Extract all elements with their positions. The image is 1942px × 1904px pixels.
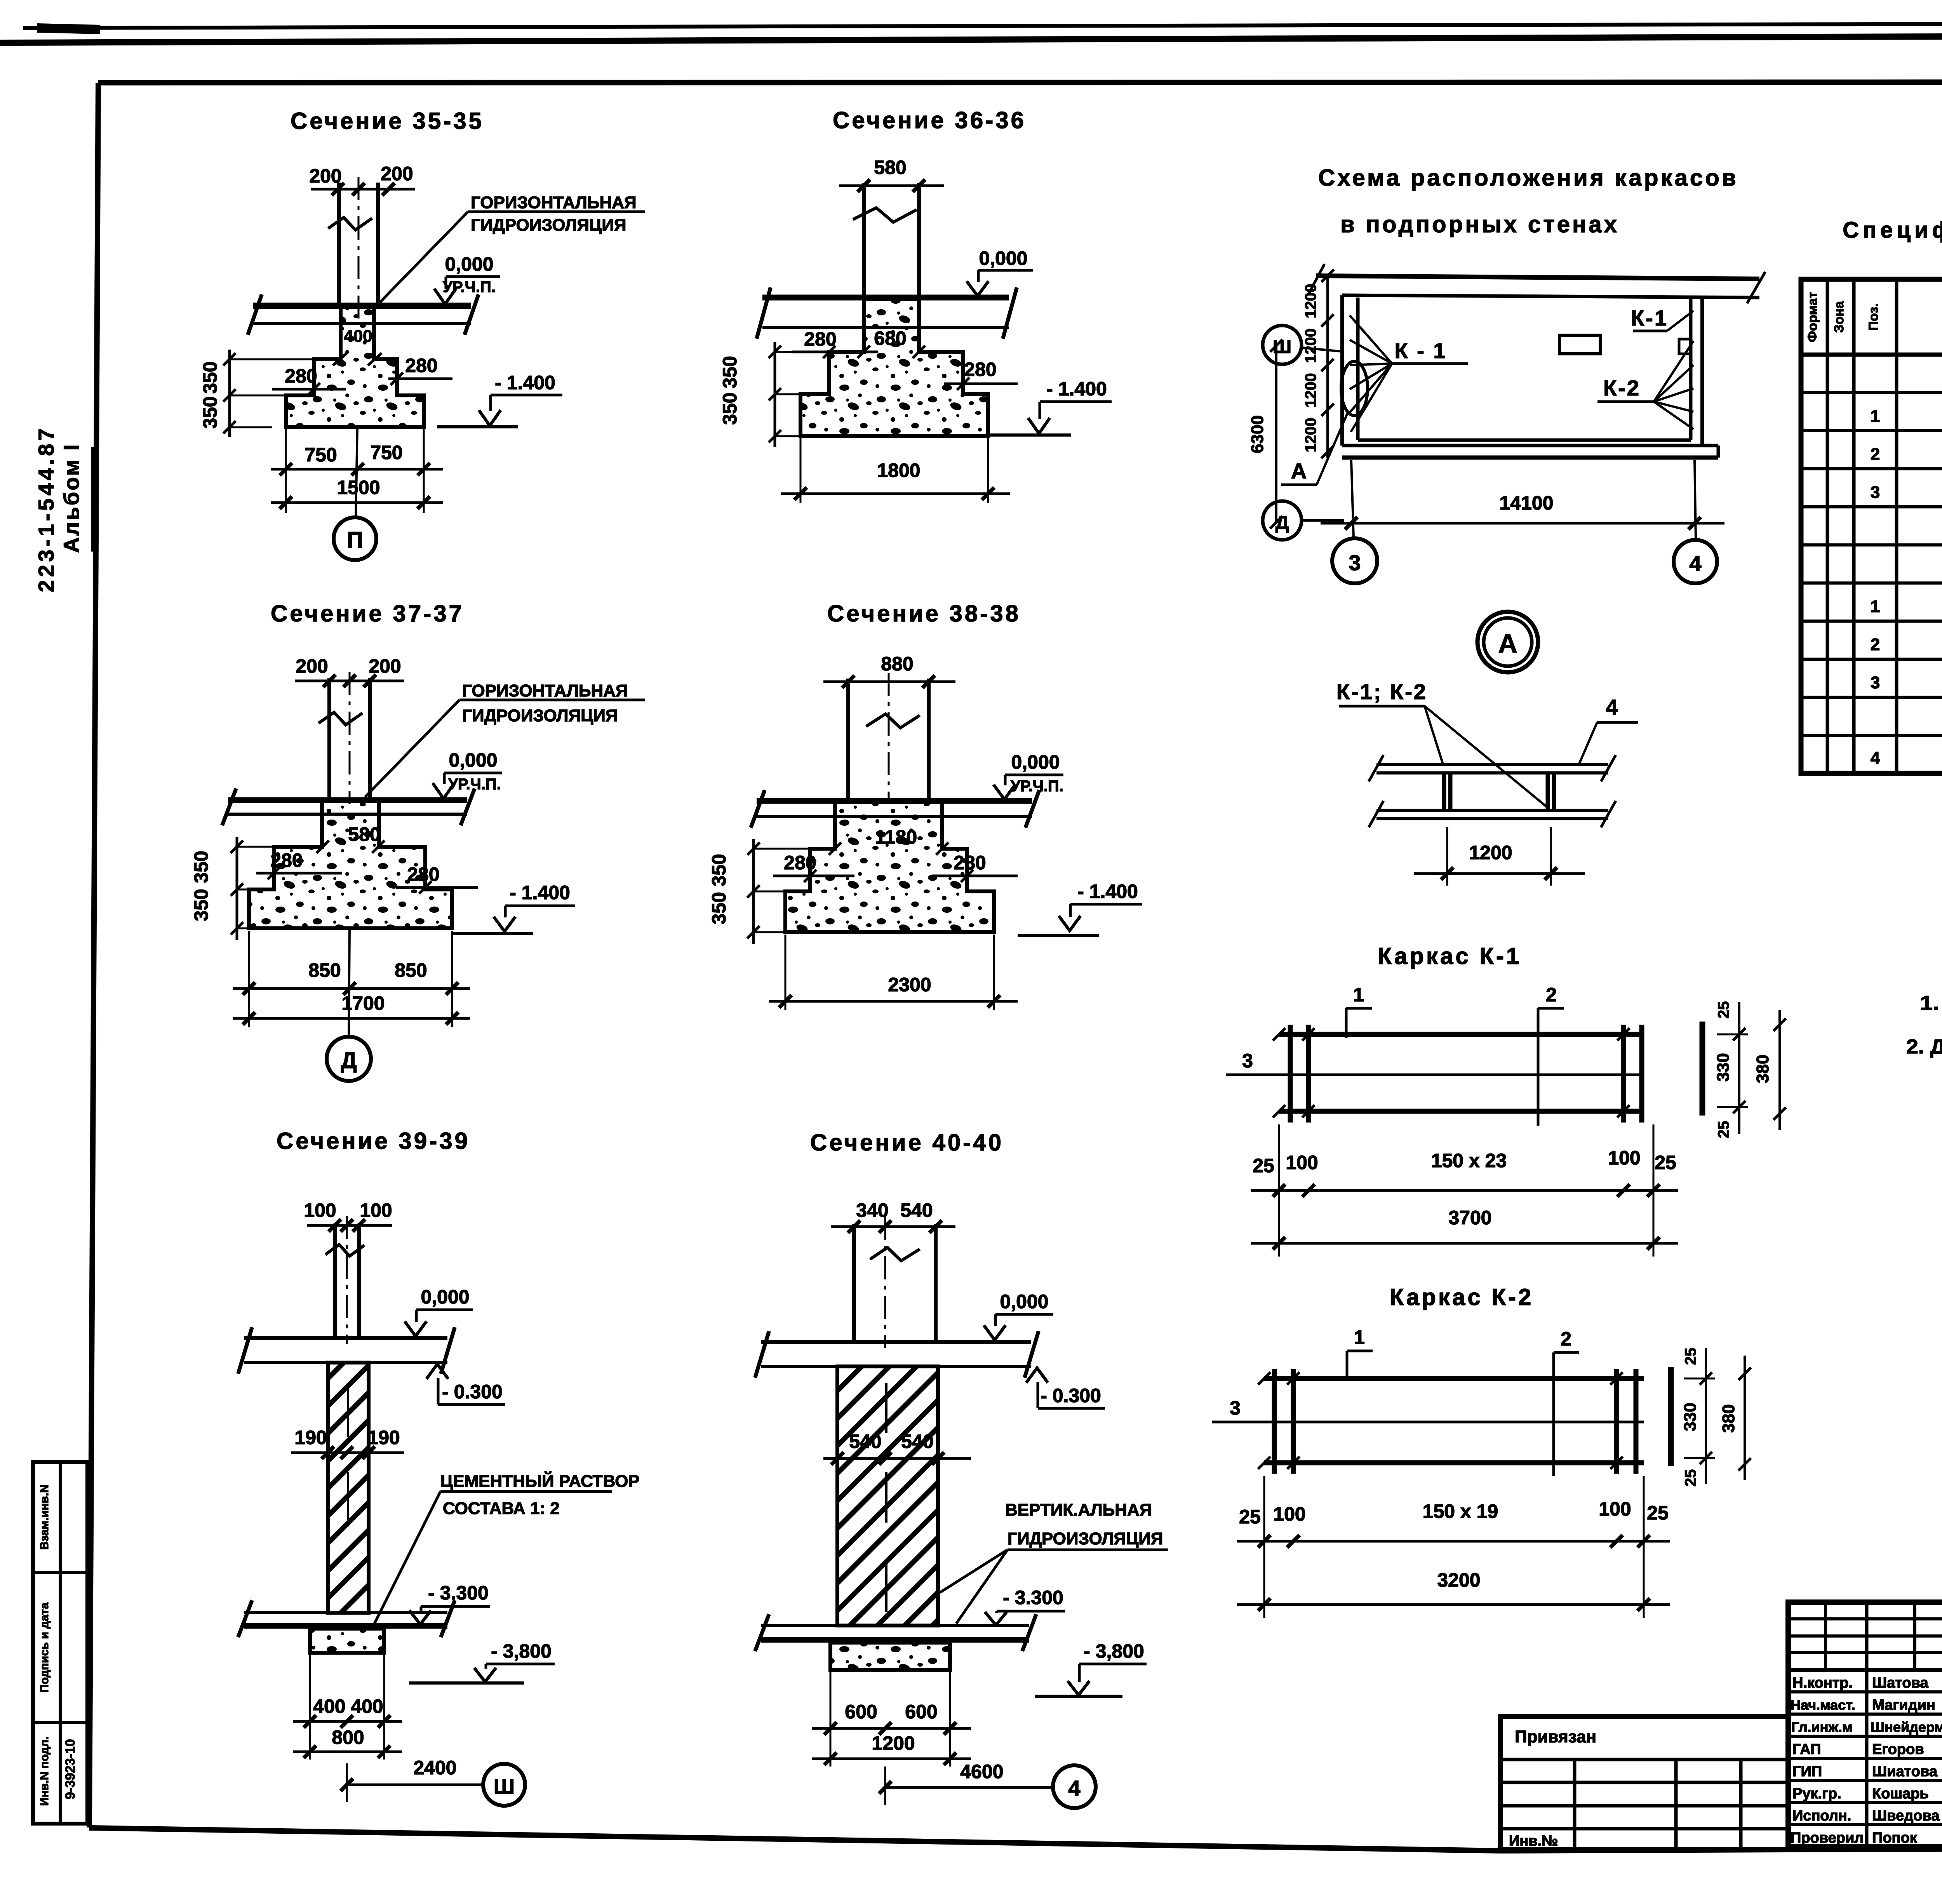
- node A detail label 4 underline: [1597, 721, 1638, 724]
- schema dim line 14100: [1321, 522, 1724, 525]
- svg-text:Спецификация арматуры на плоск: Спецификация арматуры на плоские каркасы: [1843, 218, 1942, 243]
- svg-text:750: 750: [305, 444, 337, 466]
- sheet frame top: [98, 82, 1942, 83]
- section 39-39 wall break mark: [325, 1244, 364, 1256]
- section 40-40 basement column hatched: [837, 1366, 938, 1626]
- privyazan grid h4: [1500, 1827, 1788, 1831]
- section 38-38 dim line 2300: [769, 1000, 1018, 1003]
- section 40-40 wall axis: [884, 1217, 886, 1348]
- section 37-37 axis circle D: [327, 1037, 371, 1081]
- svg-text:- 0.300: - 0.300: [1041, 1385, 1101, 1406]
- svg-text:Н.контр.: Н.контр.: [1792, 1675, 1853, 1691]
- svg-text:580: 580: [874, 157, 906, 178]
- section 40-40 dim line 600: [812, 1727, 971, 1730]
- svg-text:2. Данный лист читать совместн: 2. Данный лист читать совместно с листам…: [1906, 1036, 1942, 1058]
- left stamp divider vertical: [59, 1462, 62, 1824]
- svg-text:- 3,800: - 3,800: [1084, 1640, 1144, 1662]
- section 38-38 wall break mark: [866, 714, 920, 728]
- section 38-38 slab top waterproofing: [757, 798, 1032, 804]
- svg-text:А: А: [1498, 629, 1517, 658]
- K-1 bottom bar: [1279, 1109, 1643, 1114]
- svg-text:880: 880: [881, 653, 913, 675]
- section 37-37 wall lines: [327, 678, 331, 800]
- svg-text:0,000: 0,000: [979, 247, 1027, 269]
- K-2 left end rods: [1272, 1369, 1277, 1474]
- node A detail leaders: [1425, 706, 1443, 765]
- svg-text:Ш: Ш: [494, 1775, 515, 1798]
- section 38-38 wall axis: [888, 673, 890, 804]
- svg-text:3: 3: [1871, 483, 1880, 502]
- schema detail A oval: [1341, 361, 1368, 416]
- section 40-40 pad dim extensions: [830, 1672, 832, 1767]
- svg-text:1: 1: [1354, 1326, 1365, 1348]
- section 40-40 waterproofing underline: [1008, 1549, 1168, 1551]
- svg-text:К - 1: К - 1: [1394, 338, 1447, 363]
- svg-text:2: 2: [1871, 445, 1880, 464]
- section 39-39 dim line 800: [293, 1751, 402, 1753]
- svg-text:4: 4: [1871, 748, 1880, 768]
- svg-text:Рук.гр.: Рук.гр.: [1792, 1786, 1841, 1802]
- section 37-37 slab bottom line: [228, 813, 467, 816]
- section 37-37 ground line: [452, 932, 533, 935]
- section 40-40 wall lines above slab: [852, 1224, 856, 1342]
- svg-text:- 3.300: - 3.300: [1003, 1587, 1063, 1608]
- svg-text:П: П: [347, 527, 363, 553]
- title block outer: [1788, 1602, 1942, 1847]
- svg-text:Сечение 35-35: Сечение 35-35: [291, 108, 484, 134]
- svg-text:330: 330: [1714, 1053, 1733, 1081]
- left margin album underline: [91, 447, 94, 552]
- schema wall left inner: [1356, 298, 1360, 440]
- spec table row lines: [1801, 391, 1942, 394]
- svg-text:540: 540: [901, 1431, 933, 1452]
- svg-text:Взам.инв.N: Взам.инв.N: [38, 1485, 51, 1550]
- schema axis circle Sh: [1263, 325, 1302, 364]
- cage K-2 drawing group: [1212, 1284, 1751, 1618]
- section 39-39 axis circle Sh: [483, 1764, 525, 1806]
- section 36-36 bottom dim extensions: [800, 438, 802, 503]
- svg-text:Поз.: Поз.: [1866, 303, 1881, 331]
- schema K-1 top right leader: [1667, 311, 1693, 331]
- svg-text:350: 350: [719, 356, 741, 388]
- section 35-35 group: [199, 108, 645, 560]
- K-1 right end rods: [1621, 1025, 1626, 1123]
- section 37-37 slab break left: [222, 788, 236, 825]
- section 35-35 footing outline with concrete fill: [286, 307, 424, 427]
- section 39-39 top dim line: [307, 1224, 392, 1227]
- section 36-36 wall lines: [862, 183, 866, 298]
- spec table header bottom line: [1801, 353, 1942, 357]
- schema top beam upper line: [1316, 276, 1759, 279]
- schema K-1 top right underline: [1633, 330, 1667, 332]
- sheet frame bottom: [89, 1828, 1942, 1851]
- svg-text:- 1.400: - 1.400: [1046, 378, 1107, 400]
- svg-text:380: 380: [1719, 1404, 1738, 1432]
- svg-text:200: 200: [381, 163, 413, 184]
- section 40-40 lower slab thick line: [761, 1637, 1029, 1643]
- schema left dim line outer 6300: [1275, 346, 1277, 522]
- svg-text:1200: 1200: [1469, 842, 1512, 863]
- svg-text:Формат: Формат: [1805, 292, 1820, 342]
- svg-text:3700: 3700: [1448, 1207, 1491, 1229]
- spec table column lines: [1826, 279, 1829, 773]
- svg-text:340: 340: [856, 1199, 888, 1221]
- node A detail dim line 1200: [1414, 872, 1585, 875]
- left stamp divider 1: [33, 1571, 87, 1574]
- svg-text:400: 400: [351, 1695, 383, 1717]
- svg-text:3200: 3200: [1437, 1569, 1480, 1591]
- page top edge line: [23, 23, 1942, 28]
- section 39-39 lower slab break right: [441, 1600, 455, 1637]
- svg-text:280: 280: [407, 863, 439, 885]
- svg-text:Шведова: Шведова: [1872, 1808, 1940, 1824]
- section 35-35 bottom dim extension right: [423, 429, 425, 513]
- svg-text:Шатова: Шатова: [1872, 1675, 1929, 1691]
- section 35-35 level mark arrow: [445, 277, 447, 289]
- schema wall opening rectangle: [1559, 335, 1600, 354]
- section 39-39 pad dim extensions: [309, 1655, 311, 1760]
- section 36-36 slab break left: [757, 287, 771, 339]
- svg-text:4: 4: [1689, 551, 1701, 576]
- svg-text:350: 350: [199, 396, 221, 428]
- svg-text:150 x 23: 150 x 23: [1431, 1150, 1507, 1171]
- section 40-40 lower slab break right: [1022, 1614, 1036, 1651]
- section 37-37 top dim line: [295, 680, 404, 682]
- section 35-35 wall break mark: [328, 218, 372, 230]
- svg-text:1200: 1200: [1302, 373, 1319, 408]
- K-2 bottom dim line 1: [1237, 1540, 1670, 1543]
- section 39-39 slab break right: [441, 1327, 455, 1374]
- K-1 top bar: [1279, 1032, 1643, 1037]
- cage layout schema group: [1248, 165, 1765, 672]
- spec table outer box: [1801, 279, 1942, 773]
- svg-text:350: 350: [190, 851, 212, 883]
- K-1 end view dim line 380: [1778, 1010, 1781, 1130]
- section 37-37 footing outline with concrete fill: [249, 801, 452, 928]
- section 40-40 waterproofing leaders: [940, 1550, 1008, 1592]
- svg-text:200: 200: [309, 165, 341, 187]
- schema bottom wall lower line: [1342, 456, 1718, 460]
- svg-text:0,000: 0,000: [1000, 1291, 1048, 1312]
- svg-text:280: 280: [784, 852, 816, 874]
- svg-text:ГАП: ГАП: [1792, 1741, 1821, 1758]
- section 39-39 upper slab bottom line: [244, 1361, 447, 1364]
- schema axis circle 3: [1332, 538, 1377, 583]
- svg-text:Альбом I: Альбом I: [59, 443, 84, 553]
- svg-text:100: 100: [304, 1199, 336, 1221]
- section 36-36 footing outline with concrete fill: [800, 299, 988, 436]
- schema K-2 fan leaders: [1654, 341, 1693, 402]
- privyazan grid v1: [1573, 1760, 1577, 1850]
- section 36-36 slab top waterproofing: [762, 295, 1009, 301]
- section 40-40 footing pad with concrete fill: [830, 1643, 950, 1670]
- svg-text:6300: 6300: [1248, 415, 1267, 453]
- svg-text:- 3,800: - 3,800: [491, 1640, 552, 1662]
- title block group: [1500, 1602, 1942, 1899]
- svg-text:Инв.N подл.: Инв.N подл.: [38, 1737, 51, 1806]
- section 37-37 bottom dim extensions: [248, 931, 250, 1027]
- svg-text:1. Общие примечания даны на ли: 1. Общие примечания даны на листе 5: [1920, 992, 1942, 1015]
- svg-text:350: 350: [708, 854, 730, 886]
- left stamp divider 2: [33, 1721, 87, 1724]
- section 39-39 footing pad with concrete fill: [310, 1629, 384, 1653]
- svg-text:К-1: К-1: [1631, 306, 1668, 330]
- section 39-39 dim line 190: [291, 1451, 404, 1454]
- svg-text:150 x 19: 150 x 19: [1423, 1500, 1498, 1522]
- schema K-2 label underline: [1597, 400, 1654, 403]
- section 35-35 leader waterproofing: [374, 212, 468, 309]
- svg-text:850: 850: [395, 959, 427, 981]
- K-2 middle rod 3: [1212, 1421, 1644, 1424]
- section 38-38 slab bottom line: [757, 815, 1032, 818]
- svg-text:2300: 2300: [888, 974, 931, 996]
- svg-text:Шнейдерман: Шнейдерман: [1871, 1719, 1942, 1735]
- svg-text:100: 100: [1608, 1147, 1640, 1169]
- svg-text:Сечение 37-37: Сечение 37-37: [271, 600, 464, 627]
- node A marker double circle: [1477, 612, 1538, 672]
- svg-text:750: 750: [370, 442, 402, 463]
- svg-text:Зона: Зона: [1832, 301, 1846, 333]
- svg-text:ЦЕМЕНТНЫЙ РАСТВОР: ЦЕМЕНТНЫЙ РАСТВОР: [440, 1471, 640, 1491]
- section 39-39 dim line 2400 to axis circle: [347, 1784, 483, 1786]
- svg-text:- 1.400: - 1.400: [495, 372, 555, 393]
- K-2 top bar: [1264, 1376, 1644, 1381]
- svg-text:100: 100: [1273, 1503, 1305, 1525]
- section 37-37 level mark arrow: [443, 773, 446, 784]
- svg-text:- 3.300: - 3.300: [428, 1582, 489, 1604]
- section 38-38 ground line: [1018, 934, 1099, 937]
- K-1 left dim ticks: [1273, 1028, 1285, 1041]
- section 37-37 wall axis: [349, 672, 351, 804]
- section 37-37 group: [190, 600, 645, 1081]
- schema bottom wall inner line: [1358, 439, 1691, 442]
- section 37-37 wall break mark: [318, 712, 362, 725]
- svg-text:Подпись и дата: Подпись и дата: [38, 1602, 51, 1693]
- svg-text:2400: 2400: [413, 1757, 456, 1779]
- svg-text:9-3923-10: 9-3923-10: [63, 1739, 78, 1799]
- svg-text:- 0.300: - 0.300: [442, 1381, 503, 1403]
- svg-text:1200: 1200: [1302, 284, 1319, 318]
- section 40-40 lower slab break left: [755, 1614, 769, 1651]
- K-1 dim line 3700: [1251, 1242, 1678, 1245]
- svg-text:4600: 4600: [960, 1761, 1003, 1782]
- privyazan grid h3: [1500, 1804, 1788, 1808]
- svg-text:2: 2: [1871, 635, 1880, 654]
- svg-text:1: 1: [1871, 407, 1880, 426]
- page top edge line 2: [0, 34, 1942, 43]
- schema node A underline: [1281, 484, 1317, 486]
- left stamp box: [33, 1462, 87, 1824]
- schema K-1 label underline: [1392, 362, 1468, 365]
- svg-text:25: 25: [1253, 1155, 1274, 1177]
- svg-text:330: 330: [1681, 1403, 1700, 1431]
- svg-text:800: 800: [332, 1726, 364, 1748]
- svg-text:Каркас К-1: Каркас К-1: [1378, 943, 1522, 969]
- section 38-38 level mark arrow: [1004, 775, 1007, 785]
- title block revision rows: [1788, 1617, 1942, 1620]
- svg-text:УР.Ч.П.: УР.Ч.П.: [443, 278, 496, 296]
- svg-text:100: 100: [1286, 1152, 1318, 1173]
- svg-text:Егоров: Егоров: [1872, 1741, 1924, 1758]
- svg-text:350: 350: [719, 392, 741, 425]
- K-2 end view dim line 330: [1705, 1348, 1707, 1484]
- cage K-1 drawing group: [1226, 943, 1786, 1257]
- section 40-40 lower slab thin line: [761, 1624, 1029, 1627]
- svg-text:- 1.400: - 1.400: [1077, 881, 1138, 902]
- svg-text:100: 100: [360, 1199, 392, 1221]
- K-2 end view dim line 380: [1744, 1356, 1746, 1480]
- section 36-36 group: [719, 107, 1112, 503]
- privyazan box: [1500, 1716, 1788, 1850]
- section 40-40 column center joint: [885, 1383, 887, 1433]
- schema right wall notch: [1679, 339, 1691, 354]
- node A detail label 4 leader: [1579, 722, 1597, 764]
- svg-text:280: 280: [804, 328, 836, 350]
- page top edge thick dash: [37, 28, 100, 30]
- svg-text:580: 580: [348, 823, 380, 845]
- section 35-35 ground line: [437, 425, 518, 428]
- section 37-37 leader waterproofing: [365, 700, 459, 797]
- svg-text:3: 3: [1349, 550, 1361, 575]
- privyazan grid h2: [1500, 1781, 1788, 1784]
- section 39-39 group: [238, 1128, 640, 1806]
- svg-text:Сечение 38-38: Сечение 38-38: [827, 600, 1021, 627]
- title block name rows: [1788, 1690, 1942, 1693]
- svg-text:2: 2: [1546, 984, 1557, 1006]
- schema wall right inner: [1689, 298, 1693, 440]
- K-1 middle rod 3: [1226, 1074, 1643, 1076]
- section 40-40 upper slab top line: [761, 1340, 1031, 1344]
- section 40-40 slab break left: [755, 1331, 769, 1378]
- svg-text:0,000: 0,000: [449, 749, 497, 771]
- section 36-36 slab break right: [1003, 287, 1017, 339]
- svg-text:280: 280: [954, 852, 986, 874]
- svg-text:380: 380: [1753, 1055, 1772, 1083]
- svg-text:Магидин: Магидин: [1872, 1697, 1935, 1713]
- schema bottom wall outer line: [1342, 444, 1718, 447]
- section 38-38 footing outline with concrete fill: [785, 802, 994, 932]
- K-2 bottom bar: [1264, 1460, 1644, 1465]
- specification table group: [1801, 218, 1942, 773]
- privyazan grid v2: [1674, 1760, 1678, 1850]
- svg-text:600: 600: [905, 1701, 937, 1723]
- svg-text:Гл.инж.м: Гл.инж.м: [1791, 1719, 1853, 1735]
- section 39-39 upper slab top line: [244, 1336, 447, 1340]
- svg-text:- 1.400: - 1.400: [510, 882, 570, 903]
- section 36-36 ground line: [988, 433, 1071, 437]
- svg-text:в подпорных стенах: в подпорных стенах: [1340, 211, 1619, 237]
- section 39-39 wall center joint: [347, 1383, 349, 1437]
- section 36-36 dim line 1800: [781, 493, 1010, 495]
- section 39-39 lower slab break left: [238, 1600, 252, 1637]
- svg-text:3: 3: [1242, 1050, 1253, 1072]
- section 35-35 dim line 750: [271, 468, 443, 471]
- svg-text:1200: 1200: [1302, 418, 1319, 453]
- svg-text:Кошарь: Кошарь: [1872, 1786, 1929, 1802]
- svg-text:ГИДРОИЗОЛЯЦИЯ: ГИДРОИЗОЛЯЦИЯ: [471, 216, 626, 235]
- K-2 bottom dim extensions: [1263, 1476, 1265, 1618]
- section 40-40 top dim line: [831, 1225, 955, 1228]
- section 39-39 slab break left: [238, 1327, 252, 1374]
- svg-text:4: 4: [1068, 1776, 1080, 1800]
- privyazan grid v3: [1739, 1760, 1743, 1850]
- section 38-38 left dim line 350/350: [752, 839, 755, 944]
- section 36-36 top dim line: [839, 184, 944, 187]
- section 36-36 wall break mark: [853, 208, 917, 222]
- node A detail label underline: [1339, 705, 1425, 708]
- section 37-37 dim line 1700: [233, 1017, 470, 1020]
- svg-text:Шиатова: Шиатова: [1872, 1763, 1938, 1780]
- svg-text:25: 25: [1682, 1469, 1699, 1487]
- svg-text:Привязан: Привязан: [1515, 1727, 1596, 1746]
- svg-text:400: 400: [344, 327, 372, 346]
- section 37-37 slab break right: [461, 788, 475, 825]
- svg-text:1200: 1200: [872, 1732, 915, 1754]
- section 37-37 dim line 850: [233, 987, 470, 990]
- section 38-38 slab break right: [1025, 790, 1039, 828]
- schema left dim line inner: [1326, 276, 1329, 458]
- svg-text:Сечение 36-36: Сечение 36-36: [833, 107, 1026, 133]
- title block left verticals: [1865, 1602, 1869, 1847]
- node A detail rod 1: [1442, 774, 1446, 810]
- section 39-39 dim line 400: [293, 1720, 402, 1723]
- svg-text:190: 190: [367, 1427, 400, 1448]
- svg-text:25: 25: [1239, 1506, 1261, 1528]
- svg-text:280: 280: [964, 359, 996, 380]
- svg-text:ГОРИЗОНТАЛЬНАЯ: ГОРИЗОНТАЛЬНАЯ: [471, 193, 637, 212]
- section 35-35 slab bottom line: [253, 322, 471, 325]
- svg-text:850: 850: [308, 959, 341, 981]
- svg-text:Исполн.: Исполн.: [1792, 1808, 1851, 1824]
- section 35-35 top dim line: [311, 188, 415, 191]
- K-2 dim line 3200: [1237, 1603, 1670, 1606]
- svg-text:280: 280: [405, 355, 437, 376]
- svg-text:190: 190: [294, 1427, 327, 1448]
- section 35-35 slab top waterproofing: [253, 303, 471, 309]
- K-1 bottom dim extensions: [1278, 1124, 1280, 1257]
- section 39-39 wall axis: [346, 1216, 348, 1344]
- section 40-40 ground line: [1035, 1695, 1122, 1698]
- section 38-38 group: [708, 600, 1142, 1010]
- section 38-38 top dim line: [823, 680, 955, 683]
- svg-text:540: 540: [849, 1431, 881, 1452]
- node A detail top bar: [1376, 763, 1608, 766]
- svg-text:14100: 14100: [1499, 492, 1553, 514]
- section 39-39 ground line: [409, 1681, 524, 1685]
- svg-text:4: 4: [1606, 695, 1619, 719]
- svg-text:1: 1: [1871, 597, 1880, 616]
- svg-text:350: 350: [708, 892, 730, 924]
- svg-text:1180: 1180: [875, 826, 917, 848]
- section 40-40 dim line 1200: [812, 1758, 971, 1760]
- svg-text:К-2: К-2: [1603, 376, 1641, 400]
- section 38-38 wall lines: [846, 679, 850, 801]
- section 38-38 slab break left: [751, 790, 765, 828]
- svg-text:600: 600: [845, 1701, 877, 1723]
- K-2 end view bar: [1668, 1367, 1674, 1466]
- svg-text:СОСТАВА 1: 2: СОСТАВА 1: 2: [443, 1499, 560, 1518]
- svg-text:223-1-544.87: 223-1-544.87: [34, 425, 58, 592]
- svg-text:Каркас К-2: Каркас К-2: [1390, 1284, 1534, 1310]
- section 40-40 dim line 4600 to axis circle: [885, 1786, 1053, 1789]
- K-1 end view dim line 330: [1738, 1002, 1740, 1134]
- section 36-36 slab bottom line: [762, 326, 1009, 329]
- svg-text:25: 25: [1715, 1001, 1732, 1019]
- K-1 bottom dim line 1: [1251, 1189, 1678, 1192]
- schema top beam end ticks: [1309, 264, 1324, 293]
- section 35-35 slab break left: [248, 294, 262, 335]
- svg-text:А: А: [1291, 459, 1307, 483]
